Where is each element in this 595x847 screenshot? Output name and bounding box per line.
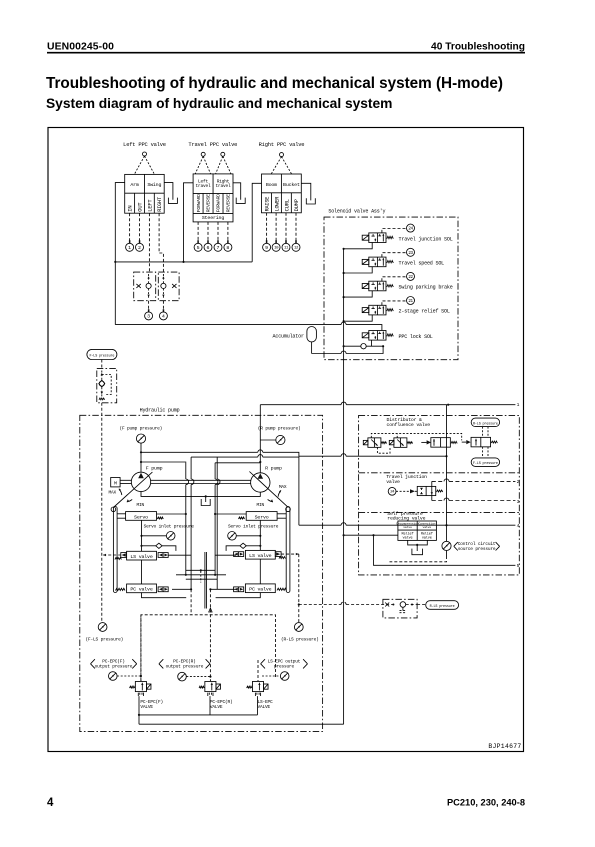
svg-text:source pressure: source pressure (458, 546, 496, 552)
F PC valve output port (right) (158, 587, 168, 592)
R PC valve spring (right) (277, 588, 287, 590)
R-LS sensing wire to valve (299, 604, 341, 606)
F LS valve (127, 551, 157, 560)
svg-text:Servo: Servo (255, 514, 269, 520)
control valve feed vertical wire (446, 405, 448, 542)
svg-text:BJP14677: BJP14677 (488, 743, 521, 750)
R servo (246, 512, 277, 521)
F pump pressure gauge (136, 434, 145, 443)
circuit number (23) (407, 248, 415, 256)
PC-EPC(F) output pressure label (91, 659, 95, 668)
svg-text:valve: valve (386, 479, 400, 485)
EPC drain bus (139, 714, 258, 716)
port 3 (145, 312, 153, 320)
R LS valve (245, 550, 275, 559)
port 10 (272, 243, 280, 251)
LS-EPC valve (252, 682, 263, 692)
svg-text:Troubleshooting of hydraulic a: Troubleshooting of hydraulic and mechani… (46, 75, 503, 92)
port 7 (214, 243, 222, 251)
distributor solenoid valve B (394, 438, 407, 448)
svg-text:F-LS pressure: F-LS pressure (89, 354, 114, 358)
solenoid valve: PPC lock SOL (369, 331, 386, 341)
R PC valve output port (left) (234, 587, 244, 592)
svg-text:System diagram of hydraulic an: System diagram of hydraulic and mechanic… (46, 96, 392, 111)
R pump discharge riser (259, 405, 261, 473)
wire: valve to pilot bus (344, 315, 373, 321)
hop of PPC pilot line over bus (341, 322, 346, 324)
port 4 (159, 312, 167, 320)
svg-text:4: 4 (517, 523, 520, 529)
left PPC tank line (164, 183, 173, 200)
R regulator spool wire (259, 520, 261, 550)
svg-text:VALVE: VALVE (258, 704, 271, 710)
LS-EPC gauge (280, 672, 289, 681)
F-LS sensing wire (upper) (101, 360, 103, 369)
svg-text:FORWARD: FORWARD (196, 194, 202, 212)
svg-text:CURL: CURL (283, 199, 290, 211)
control circuit output wire (344, 534, 398, 536)
wire: valve to pilot bus (344, 243, 373, 249)
R-LS pressure tag (top) (471, 418, 499, 427)
pilot bus vertical wire (343, 249, 345, 535)
F pump (131, 472, 150, 491)
reducing valve drain tank (412, 549, 423, 555)
circuit number (22) (407, 272, 415, 280)
R pump discharge wire to line 1 (260, 404, 341, 406)
R servo linkage (286, 507, 290, 593)
svg-text:2: 2 (517, 479, 520, 485)
reducing valve drain wires (408, 540, 428, 545)
pilot supply bus wire (115, 261, 252, 263)
right PPC tank symbol (306, 198, 315, 204)
svg-text:Travel PPC valve: Travel PPC valve (188, 141, 237, 148)
svg-text:valve: valve (422, 535, 432, 540)
pump tandem shaft (151, 479, 251, 481)
R pump (251, 473, 270, 492)
center manifold wire v1 (185, 463, 187, 575)
left PPC tank symbol (168, 198, 177, 204)
R LS valve pilot port (right) (275, 552, 281, 557)
diagram border frame (48, 128, 524, 752)
merged discharge wire to control valve (299, 455, 341, 457)
port 1 (126, 243, 134, 251)
svg-text:4: 4 (47, 797, 54, 809)
PC-R drain loop (216, 592, 261, 597)
signal wire to (24) (382, 229, 406, 233)
control gauge drain (446, 551, 448, 557)
solenoid valve: Swing parking brake (369, 281, 386, 291)
F pump swash lever (113, 472, 152, 507)
svg-text:Travel speed SOL: Travel speed SOL (399, 261, 445, 267)
svg-text:5: 5 (197, 245, 200, 251)
control circuit source pressure label (454, 542, 458, 550)
svg-text:REVERSE: REVERSE (226, 194, 232, 212)
F LS valve output port (right) (158, 553, 168, 558)
R PC valve (245, 584, 275, 593)
LS select sensing wires (482, 427, 484, 438)
svg-text:Swing parking brake: Swing parking brake (399, 285, 453, 291)
F-LS pilot wire (103, 554, 121, 556)
line 4 feed riser (298, 456, 300, 525)
distributor solenoid valve A (368, 438, 381, 448)
engine (111, 478, 120, 487)
shuttle restrictor symbol (136, 284, 140, 288)
PC-EPC(F) valve (135, 682, 146, 692)
svg-text:7: 7 (217, 245, 220, 251)
circuit number (24) at travel junction valve (388, 487, 396, 495)
travel junction port wire to line 2 (432, 480, 444, 482)
svg-text:F pump: F pump (146, 465, 163, 471)
svg-text:MIN: MIN (137, 502, 145, 508)
svg-text:Arm: Arm (130, 182, 139, 188)
svg-text:(R pump pressure): (R pump pressure) (258, 426, 301, 432)
travel PPC left lever (201, 152, 205, 156)
svg-text:Servo inlet pressure: Servo inlet pressure (144, 523, 195, 529)
swing shuttle valve 2 enclosure (158, 272, 179, 301)
svg-text:LS valve: LS valve (249, 553, 271, 559)
svg-text:confluence valve: confluence valve (387, 422, 431, 428)
left PPC valve lever triangle (134, 156, 154, 174)
R-LS check valve (385, 603, 389, 607)
svg-text:(R-LS pressure): (R-LS pressure) (281, 637, 319, 643)
line 5 wire (374, 535, 516, 565)
L3a wire (141, 461, 186, 464)
PC-EPC(R) gauge (178, 672, 187, 681)
PPC lock valve drain with restrictor (344, 345, 361, 347)
svg-text:Servo inlet pressure: Servo inlet pressure (228, 523, 279, 529)
F-LS pressure gauge (98, 623, 107, 632)
R LS valve output port (left) (234, 552, 244, 557)
F servo (126, 512, 157, 521)
signal wire to (23) (382, 253, 406, 257)
R LS valve select diamond (240, 543, 246, 548)
center cross wire h3 (186, 578, 217, 580)
svg-text:output pressure: output pressure (95, 663, 133, 669)
port 5 (194, 243, 202, 251)
svg-text:VALVE: VALVE (140, 704, 153, 710)
solenoid valve: Travel speed SOL (369, 257, 386, 267)
port 8 (224, 243, 232, 251)
center manifold wire v4 (214, 463, 216, 575)
F PC valve (127, 584, 157, 593)
svg-text:Left PPC valve: Left PPC valve (123, 141, 166, 148)
svg-text:travel: travel (215, 183, 231, 189)
F LS valve pilot port (left) (121, 553, 127, 558)
R LS valve spring (right) (279, 557, 286, 559)
center cross wire h1 (186, 569, 215, 571)
PPC output wires to ports 1,2 (129, 213, 131, 240)
svg-text:R-LS pressure: R-LS pressure (430, 605, 455, 609)
check valve bypass wire (102, 375, 111, 395)
PC-EPC(R) pilot wire (209, 589, 211, 681)
svg-text:2-stage relief SOL: 2-stage relief SOL (399, 309, 450, 315)
right PPC output wires to ports 9-12 (266, 213, 268, 241)
pilot bus lower vertical wire (343, 535, 345, 724)
PC-EPC(R) valve (205, 682, 216, 692)
svg-text:Travel junction SOL: Travel junction SOL (399, 236, 453, 242)
L3b wire (215, 462, 260, 464)
port 6 (204, 243, 212, 251)
travel PPC tank line (233, 183, 241, 200)
svg-text:LEFT: LEFT (146, 199, 153, 212)
PC-EPC(R) output pressure label (159, 659, 163, 668)
svg-text:LOWER: LOWER (274, 197, 280, 212)
LS-R output wire (215, 554, 236, 556)
svg-text:Boom: Boom (266, 182, 277, 188)
EPC valve drain drops (138, 696, 140, 724)
PC-EPC(F) gauge (109, 672, 118, 681)
svg-text:F-LS pressure: F-LS pressure (473, 462, 498, 466)
svg-text:(F pump pressure): (F pump pressure) (120, 426, 163, 432)
svg-text:PC valve: PC valve (130, 587, 152, 593)
F regulator spool wire (141, 520, 143, 551)
svg-text:REVERSE: REVERSE (206, 194, 212, 212)
hydraulic pump assembly enclosure (80, 415, 323, 731)
solenoid valve: 2-stage relief SOL (369, 305, 386, 315)
wire: valve to pilot bus (344, 267, 373, 273)
svg-text:PC210, 230, 240-8: PC210, 230, 240-8 (447, 798, 525, 808)
port 2 (136, 243, 144, 251)
svg-text:VALVE: VALVE (210, 704, 223, 710)
svg-text:9: 9 (265, 245, 268, 251)
confluence valve D (471, 437, 491, 447)
numbered line 4 wire (299, 524, 341, 526)
LS-EPC pilot wire (257, 660, 259, 681)
center pilot stub (200, 571, 202, 583)
servo inlet gauge (F) (166, 532, 175, 541)
svg-text:Swing: Swing (147, 182, 161, 188)
PPC lock valve supply wire from top (346, 325, 382, 331)
svg-text:40 Troubleshooting: 40 Troubleshooting (431, 41, 525, 52)
right PPC tank line (301, 183, 311, 200)
LS-F output wire (168, 554, 191, 556)
F pump discharge riser (140, 443, 142, 472)
svg-text:Hydraulic pump: Hydraulic pump (140, 408, 180, 414)
circuit number (21) (407, 297, 415, 305)
F-LS pressure tag (top) (87, 349, 117, 359)
travel PPC output wires to ports 5-8 (197, 222, 199, 241)
svg-text:travel: travel (195, 183, 211, 189)
svg-text:2: 2 (138, 245, 141, 251)
svg-text:PC valve: PC valve (249, 587, 271, 593)
port 11 (282, 243, 290, 251)
PC-F output wire (172, 588, 191, 590)
pump case drain wire (141, 492, 260, 497)
EPC valves enclosure (141, 615, 276, 681)
wire: valve to pilot bus (344, 291, 373, 297)
travel junction valve body (417, 486, 436, 495)
svg-text:3: 3 (147, 314, 150, 320)
center manifold wire v5 (216, 457, 218, 589)
R pump swash lever (249, 472, 288, 508)
svg-text:3: 3 (517, 499, 520, 505)
svg-text:valve: valve (403, 535, 413, 540)
svg-text:LS valve: LS valve (130, 554, 152, 560)
svg-text:Servo: Servo (134, 514, 148, 520)
swing pilot wire RIGHT (159, 213, 163, 272)
dashed drain boundary (390, 556, 447, 562)
svg-text:RAISE: RAISE (264, 197, 270, 212)
F LS valve select diamond (156, 543, 162, 548)
right PPC lever knob (280, 153, 284, 157)
F servo linkage (113, 507, 117, 593)
LS-EPC output pressure label (261, 659, 265, 668)
F pump swash pivot (111, 507, 116, 512)
left PPC supply wire (115, 183, 124, 325)
control circuit source gauge (442, 541, 451, 550)
right PPC supply wire (252, 183, 261, 262)
center manifold wire v2 (190, 457, 192, 589)
svg-text:5: 5 (517, 563, 520, 569)
svg-text:OUT: OUT (136, 202, 143, 212)
F-LS pressure tag (right) (471, 458, 499, 467)
R-LS pressure tag (bottom) (417, 604, 426, 606)
left PPC valve body table (125, 174, 165, 213)
servo F supply wire (157, 513, 186, 515)
F-LS check valve (101, 371, 103, 381)
F-LS sensing wire (lower) (101, 403, 103, 623)
signal wire to (21) (382, 301, 406, 305)
solenoid valve assembly enclosure (324, 217, 458, 360)
svg-text:6: 6 (207, 245, 210, 251)
swing shuttle valve 2 (161, 283, 166, 288)
wire to port 4 (162, 301, 164, 312)
svg-text:UEN00245-00: UEN00245-00 (47, 42, 114, 53)
svg-text:MAX: MAX (279, 484, 287, 490)
travel PPC tank symbol (236, 198, 245, 204)
R-LS pressure gauge (294, 623, 303, 632)
port 9 (263, 243, 271, 251)
svg-text:4: 4 (162, 314, 165, 320)
svg-text:Accumulator: Accumulator (273, 334, 304, 340)
header rule (47, 52, 525, 54)
port 12 (292, 243, 300, 251)
servo inlet gauge (R) (228, 532, 237, 541)
center manifold wire v3 (204, 552, 206, 609)
EPC return wire to pilot bus (139, 723, 344, 725)
shuttle restrictor symbol (172, 284, 176, 288)
svg-text:MIN: MIN (257, 502, 265, 508)
right PPC valve body table (262, 174, 302, 213)
R pump swash pivot (286, 507, 291, 512)
svg-text:MAX: MAX (109, 490, 117, 496)
R pump pressure gauge (276, 435, 285, 444)
PC-EPC(F) pilot wire (140, 615, 142, 681)
self pressure reducing valve block (398, 521, 437, 540)
svg-text:pressure: pressure (274, 663, 295, 669)
signal wire to (22) (382, 277, 406, 281)
swing shuttle valve 1 (146, 283, 151, 288)
servo R supply wire (215, 513, 246, 515)
discharge wire L2 to control valve (191, 456, 258, 458)
svg-text:R pump: R pump (265, 465, 282, 471)
circuit number (24) (407, 224, 415, 232)
F PC valve spring (left) (116, 588, 126, 590)
svg-text:8: 8 (226, 245, 229, 251)
F pump discharge wire L1 (141, 451, 258, 453)
swing shuttle valve 1 enclosure (134, 272, 156, 301)
svg-text:IN: IN (127, 206, 134, 212)
confluence valve C (431, 438, 451, 448)
svg-text:(F-LS pressure): (F-LS pressure) (86, 637, 124, 643)
svg-text:1: 1 (128, 245, 131, 251)
wire to port 3 (148, 301, 150, 312)
PC-EPC(F) pilot wire upper (190, 589, 192, 615)
R-LS pilot wire (281, 553, 299, 555)
svg-text:M: M (114, 481, 117, 487)
R-LS sensing wire down (298, 554, 300, 623)
svg-text:R-LS pressure: R-LS pressure (473, 422, 498, 426)
distributor pilot wires (dashed) (371, 433, 461, 440)
svg-text:FORWARD: FORWARD (216, 194, 222, 212)
F-LS check valve enclosure (97, 368, 117, 402)
svg-text:1: 1 (517, 402, 520, 408)
swing pilot wire LEFT (148, 213, 150, 272)
travel junction port wire to line 3 (432, 500, 444, 502)
control valve units enclosure (359, 415, 520, 575)
svg-text:output pressure: output pressure (166, 663, 204, 669)
svg-text:PPC lock SOL: PPC lock SOL (399, 334, 433, 340)
accumulator return wire (346, 346, 383, 353)
R-LS check valve enclosure (383, 599, 417, 618)
travel PPC supply wire (184, 183, 194, 262)
center cross wire h2 (176, 574, 226, 576)
PC-F drain loop (142, 592, 187, 597)
left PPC valve lever knob (143, 152, 147, 156)
PC-R output wire (210, 588, 236, 590)
travel PPC right lever (221, 152, 225, 156)
travel PPC valve body table (193, 174, 233, 222)
svg-text:DUMP: DUMP (293, 199, 300, 211)
svg-text:RIGHT: RIGHT (157, 197, 163, 212)
engine shaft (120, 479, 131, 481)
case drain tank symbol (205, 496, 207, 502)
solenoid valve: Travel junction SOL (369, 233, 386, 243)
svg-text:Solenoid valve Ass'y: Solenoid valve Ass'y (328, 209, 385, 215)
svg-text:Right PPC valve: Right PPC valve (259, 141, 305, 148)
svg-text:Steering: Steering (202, 215, 224, 221)
F LS valve spring (left) (115, 558, 122, 560)
svg-text:Bucket: Bucket (283, 182, 300, 188)
